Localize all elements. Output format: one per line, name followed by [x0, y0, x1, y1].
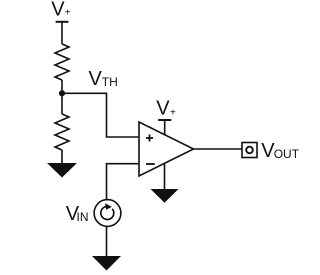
- svg-text:V: V: [51, 0, 65, 21]
- wire: op-amp - input to VIN source: [107, 164, 140, 200]
- wire: op-amp bottom edge to ground: [164, 163, 166, 190]
- ground (op-amp): [151, 189, 179, 203]
- svg-text:OUT: OUT: [274, 147, 300, 161]
- ground (VIN): [92, 256, 121, 271]
- V+ supply label (op-amp): [156, 98, 176, 120]
- VTH label: [89, 68, 118, 90]
- ground (below R2): [47, 163, 77, 178]
- op-amp U1 body: [139, 122, 194, 176]
- output terminal VOUT (square with circle): [242, 143, 257, 158]
- V+ supply terminal bar (top left): [56, 21, 69, 23]
- svg-text:+: +: [65, 8, 71, 19]
- VIN label: [66, 203, 89, 225]
- wire: op-amp output: [194, 148, 243, 150]
- node VTH (junction dot): [59, 90, 65, 96]
- svg-text:V: V: [156, 98, 170, 120]
- source VIN (circle with clockwise arrow): [94, 200, 121, 227]
- svg-text:V: V: [89, 68, 103, 90]
- V+ supply label (top left): [51, 0, 71, 21]
- svg-text:+: +: [170, 107, 176, 118]
- resistor R2: [55, 114, 69, 150]
- wire: VIN source to ground: [106, 226, 108, 256]
- VOUT label: [261, 140, 299, 162]
- op-amp + input marker: [146, 135, 153, 142]
- svg-text:TH: TH: [102, 75, 118, 89]
- wire: V+ bar to R1: [61, 22, 63, 44]
- wire: R1 to node: [61, 80, 63, 114]
- op-amp - input marker: [146, 163, 155, 165]
- wire: node VTH to op-amp + input: [62, 93, 139, 137]
- V+ supply terminal bar (op-amp): [158, 119, 171, 121]
- resistor R1: [55, 44, 69, 80]
- wire: R2 to ground: [61, 150, 63, 164]
- wire: V+ bar to op-amp top edge: [164, 120, 166, 135]
- svg-text:IN: IN: [77, 210, 89, 224]
